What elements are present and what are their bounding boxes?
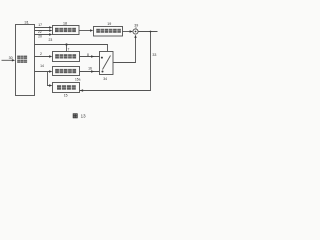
svg-text:7: 7 xyxy=(68,47,70,51)
svg-text:20: 20 xyxy=(38,35,42,39)
arrowhead into box16 xyxy=(49,70,52,72)
svg-text:15: 15 xyxy=(64,94,68,98)
svg-text:2: 2 xyxy=(40,52,42,56)
branch wire to oscillator xyxy=(48,72,52,86)
arrowhead into oscillator xyxy=(49,84,52,86)
svg-text:18: 18 xyxy=(63,22,67,26)
wire box19 to mixer xyxy=(123,31,133,33)
svg-text:33: 33 xyxy=(152,53,156,57)
svg-text:16: 16 xyxy=(88,66,92,70)
svg-text:15a: 15a xyxy=(75,78,81,82)
svg-text:30: 30 xyxy=(9,56,13,60)
arrowhead into box19 xyxy=(90,29,93,31)
tick 39 xyxy=(135,27,137,29)
mixer circle 39 xyxy=(133,29,138,34)
decoder box 19 xyxy=(94,27,123,37)
oscillator output wire xyxy=(80,90,151,92)
wire 22 xyxy=(35,30,51,32)
camera text row2 xyxy=(17,60,27,63)
wire box16 to switch xyxy=(80,71,100,73)
box18 text xyxy=(55,28,76,32)
wire camera to box16 xyxy=(35,71,51,73)
arrowhead into box8 xyxy=(49,55,52,57)
wire mixer to output xyxy=(138,31,157,33)
arrowhead wire20 xyxy=(49,33,52,35)
glyph texture slits xyxy=(17,30,121,88)
input wire 30 xyxy=(2,59,14,61)
svg-text:22: 22 xyxy=(38,30,42,34)
arrowhead box16 to switch xyxy=(91,70,94,72)
svg-text:13: 13 xyxy=(81,114,86,119)
branch wire 7 xyxy=(66,45,68,52)
arrowhead wire17 xyxy=(49,26,52,28)
arrowhead box8 to switch xyxy=(91,55,94,57)
signal processing box 18 xyxy=(53,26,80,35)
svg-text:34: 34 xyxy=(103,77,107,81)
svg-text:23: 23 xyxy=(49,38,53,42)
scan box 16 xyxy=(53,67,80,76)
control wire 23 xyxy=(35,45,108,52)
arrowhead into mixer xyxy=(130,30,133,32)
box19 text xyxy=(96,29,121,33)
junction dot control wire xyxy=(65,43,67,45)
svg-text:31: 31 xyxy=(24,20,29,25)
camera text row1 xyxy=(17,56,27,59)
wire 20 xyxy=(35,34,51,36)
arrowhead switch output into mixer xyxy=(134,35,136,38)
arrowhead into camera xyxy=(12,59,15,61)
caption glyph tu xyxy=(73,114,77,118)
wire 17 xyxy=(35,27,51,29)
wire camera to box8 xyxy=(35,56,51,58)
box8 text xyxy=(55,54,76,58)
svg-text:17: 17 xyxy=(38,23,42,27)
switch arm xyxy=(103,56,111,70)
switch contact upper xyxy=(101,57,103,59)
svg-text:14: 14 xyxy=(40,64,44,68)
wire box8 to switch xyxy=(80,56,100,58)
wire box18 to box19 xyxy=(79,30,91,32)
arrowhead wire22 xyxy=(49,29,52,31)
switch box 34 xyxy=(100,52,114,75)
switch contact lower xyxy=(102,71,104,73)
level box 8 xyxy=(53,52,80,62)
oscillator text xyxy=(57,85,76,90)
camera block 31 xyxy=(16,25,35,96)
junction dot output line xyxy=(150,31,152,33)
box16 text xyxy=(55,69,76,73)
svg-text:19: 19 xyxy=(107,22,111,26)
output feedback line 33 xyxy=(81,32,151,91)
wire switch to mixer xyxy=(113,36,136,63)
svg-text:8: 8 xyxy=(87,53,89,57)
arrowhead feedback into oscillator xyxy=(80,89,83,91)
oscillator box 15 xyxy=(53,83,80,93)
